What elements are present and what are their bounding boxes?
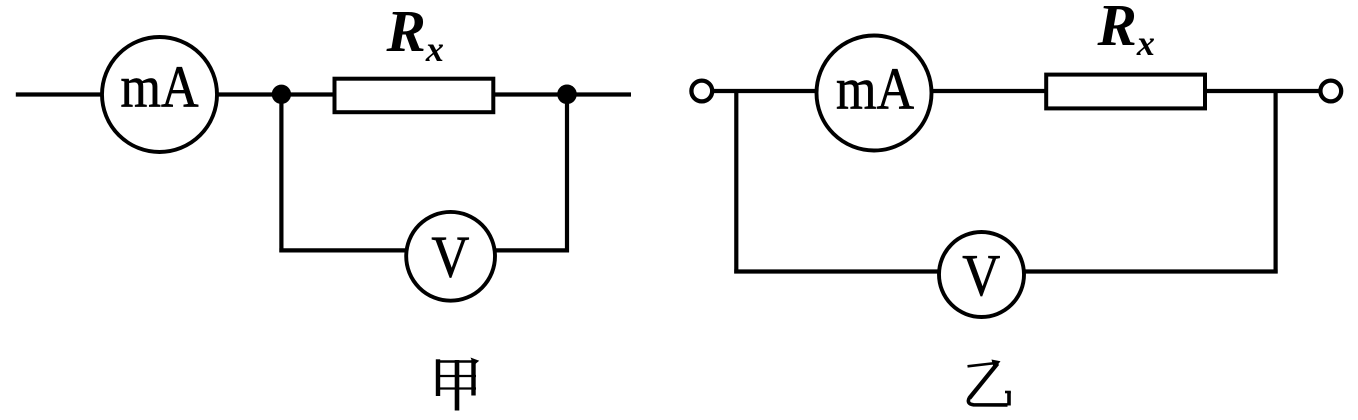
node: right junction dot bbox=[557, 85, 577, 105]
svg-text:mA: mA bbox=[121, 54, 199, 120]
wire: bottom horizontal branch bbox=[279, 248, 569, 252]
resistor Rx (left) bbox=[335, 79, 494, 113]
wire: left vertical branch bbox=[279, 95, 283, 253]
milliammeter mA (left) bbox=[102, 37, 217, 152]
wire: mA to left junction and across resistor row bbox=[210, 92, 340, 96]
wire: top horizontal bbox=[712, 89, 830, 93]
label 甲 (drawn) bbox=[436, 358, 479, 411]
milliammeter mA (right) bbox=[817, 36, 932, 151]
wire: resistor right to right end bbox=[490, 92, 631, 96]
voltmeter V (left) bbox=[406, 212, 495, 301]
resistor Rx (right) bbox=[1046, 75, 1205, 109]
wire: bottom horizontal bbox=[734, 269, 1277, 273]
label 乙 (drawn) bbox=[968, 360, 1011, 406]
terminal (left open circle) bbox=[691, 81, 712, 102]
terminal (right open circle) bbox=[1320, 81, 1341, 102]
wire: right vertical bbox=[1273, 91, 1277, 274]
wire: left vertical bbox=[734, 91, 738, 274]
svg-text:V: V bbox=[962, 242, 1000, 308]
wire: right vertical branch bbox=[565, 95, 569, 253]
wire: left main horizontal lead bbox=[16, 92, 110, 96]
svg-text:mA: mA bbox=[836, 56, 914, 122]
voltmeter V (right) bbox=[939, 232, 1024, 317]
svg-text:V: V bbox=[431, 223, 469, 289]
node: left junction dot bbox=[272, 85, 291, 104]
